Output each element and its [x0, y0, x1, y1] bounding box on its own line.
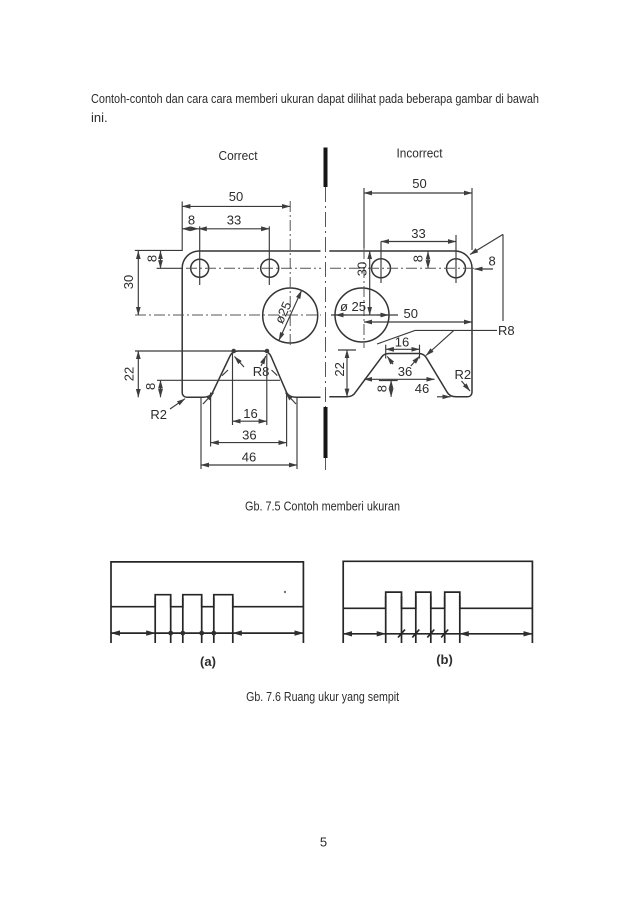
svg-text:16: 16: [243, 406, 257, 421]
R8 label and arrows (correct): [235, 356, 270, 379]
step line with tabs (a): [111, 595, 303, 607]
dimension 16 (incorrect): [386, 335, 420, 359]
svg-text:(a): (a): [200, 654, 216, 669]
tab extension lines (b): [385, 596, 387, 643]
dimension 36 (correct): [211, 393, 287, 447]
plate outline (correct): [182, 251, 320, 397]
dimension 8 vertical top (correct): [145, 251, 184, 268]
main centerline (correct side): [135, 314, 321, 316]
foot tangent arrows: [203, 393, 214, 404]
center divider break line: [324, 148, 328, 471]
svg-text:R2: R2: [150, 407, 167, 422]
R8 corner leader (incorrect): [470, 234, 503, 321]
dimension 46 (correct): [201, 398, 297, 469]
svg-text:R2: R2: [455, 367, 472, 382]
hole centerline horizontal (incorrect): [330, 267, 474, 269]
svg-text:ø 25: ø 25: [340, 299, 366, 314]
dimension 8 top-left (correct): [182, 213, 198, 229]
svg-text:8: 8: [143, 383, 158, 390]
dimension 50 lower (incorrect): [364, 306, 472, 322]
svg-text:16: 16: [395, 335, 409, 350]
plate outline (incorrect): [329, 251, 472, 397]
dimension phi25 diagonal (correct): [272, 291, 302, 341]
dimension 22 (correct): [122, 351, 234, 397]
dimension chain (b): [343, 633, 386, 635]
svg-text:ini.: ini.: [91, 110, 108, 125]
svg-text:8: 8: [375, 385, 390, 392]
block outline (b): [343, 561, 532, 643]
svg-text:30: 30: [355, 262, 370, 276]
svg-text:Incorrect: Incorrect: [397, 146, 443, 161]
dimension 22 (incorrect): [332, 350, 356, 397]
R2 label and leader (incorrect): [455, 367, 472, 391]
svg-text:R8: R8: [498, 323, 515, 338]
svg-text:46: 46: [242, 450, 256, 465]
svg-text:Correct: Correct: [219, 148, 258, 163]
svg-text:8: 8: [411, 255, 426, 262]
hole vertical centerline left: [199, 226, 201, 285]
svg-text:30: 30: [121, 275, 136, 289]
svg-text:22: 22: [122, 367, 137, 381]
oblique slashes (b): [398, 630, 405, 638]
R2 label and leader (correct): [150, 399, 185, 422]
svg-text:33: 33: [411, 226, 425, 241]
paragraph text: [91, 91, 539, 125]
dimension 16 (correct): [233, 354, 267, 425]
dimension 8 between holes (incorrect): [411, 252, 428, 269]
hole vertical centerline right (incorrect): [455, 235, 457, 283]
hole right (incorrect): [447, 259, 466, 278]
svg-text:8: 8: [188, 213, 195, 228]
svg-text:50: 50: [229, 189, 243, 204]
hole left (incorrect): [372, 259, 391, 278]
circle vertical centerline / 50 extension: [289, 201, 291, 348]
hole vertical centerline right: [268, 226, 270, 285]
svg-text:8: 8: [145, 255, 160, 262]
hole vertical centerline left (incorrect): [380, 242, 382, 284]
svg-text:36: 36: [398, 364, 412, 379]
svg-text:22: 22: [332, 362, 347, 376]
dimension 8 leader right (incorrect): [475, 254, 496, 270]
svg-text:ø25: ø25: [272, 299, 295, 326]
tangent dots on bump top: [231, 349, 236, 354]
dimension 33 (incorrect): [381, 226, 456, 242]
dimension 30 (correct): [121, 250, 182, 315]
svg-text:(b): (b): [436, 652, 453, 667]
tab extension lines (a): [154, 598, 156, 643]
circle 25 (incorrect): [335, 288, 389, 342]
svg-text:33: 33: [227, 213, 241, 228]
dots (a): [168, 631, 173, 636]
svg-text:Gb. 7.5 Contoh memberi ukuran: Gb. 7.5 Contoh memberi ukuran: [245, 499, 400, 514]
hole centerline horizontal: [186, 267, 321, 269]
speck: [284, 591, 286, 593]
phi25 dimension line through circle (incorrect): [331, 299, 398, 315]
svg-text:50: 50: [412, 176, 426, 191]
circle 25 (correct): [263, 288, 318, 343]
block outline (a): [111, 562, 303, 643]
circle vertical centerline / 50 ext (incorrect): [363, 188, 365, 248]
svg-text:Gb. 7.6 Ruang ukur yang sempit: Gb. 7.6 Ruang ukur yang sempit: [246, 689, 399, 704]
dimension 30 (incorrect): [355, 251, 370, 315]
dimension 36 (incorrect): [364, 356, 435, 379]
dimension 8 (incorrect bottom): [375, 381, 398, 397]
svg-text:Contoh-contoh dan cara cara me: Contoh-contoh dan cara cara memberi ukur…: [91, 91, 539, 106]
hole left (correct): [191, 259, 209, 277]
svg-text:46: 46: [415, 381, 429, 396]
dimension 8 vertical bottom (correct): [143, 380, 280, 397]
svg-text:5: 5: [320, 835, 327, 850]
step line with tabs (b): [343, 592, 532, 608]
dimension 33 (correct): [199, 213, 270, 229]
R8 label and flag leader (incorrect): [377, 323, 515, 356]
tangent ticks on slopes: [222, 370, 228, 376]
dimension 50 (correct): [182, 189, 290, 251]
svg-text:8: 8: [489, 254, 496, 269]
hole right (correct): [261, 259, 279, 277]
dimension chain (a): [111, 632, 155, 634]
svg-text:50: 50: [404, 306, 418, 321]
dimension 46 on bottom edge (incorrect): [415, 381, 451, 397]
dimension 50 top (incorrect): [364, 176, 472, 250]
svg-text:36: 36: [242, 428, 256, 443]
